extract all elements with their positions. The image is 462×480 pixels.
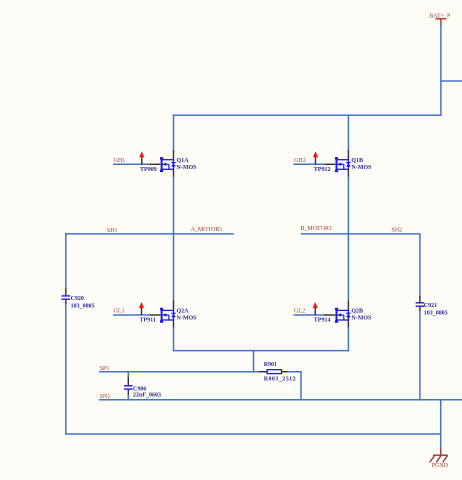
pin Q2A drain stub — [173, 301, 175, 308]
svg-text:R901: R901 — [264, 362, 277, 368]
svg-text:TP911: TP911 — [140, 318, 156, 324]
svg-text:SH2: SH2 — [392, 228, 403, 234]
pin Q1A gate stub — [150, 163, 161, 165]
wire Q1A source to Q2A drain — [173, 177, 175, 300]
wire BAT+ branch to right edge — [441, 80, 462, 82]
transistor Q1A N-MOS — [160, 157, 176, 172]
wire SN1 — [100, 399, 462, 401]
testpoint TP914 — [313, 302, 318, 315]
svg-text:N-MOS: N-MOS — [351, 316, 372, 322]
svg-text:GL1: GL1 — [114, 309, 125, 315]
wire Q1B source to Q2B drain — [347, 177, 349, 300]
svg-text:A_MOTOR1: A_MOTOR1 — [191, 227, 223, 233]
wire BAT+ vertical — [440, 25, 442, 115]
svg-text:C921: C921 — [424, 303, 437, 309]
wire Q2A source down — [173, 328, 175, 351]
wire PGND vertical — [440, 400, 442, 448]
svg-text:GH1: GH1 — [114, 158, 126, 164]
pin Q2B drain stub — [347, 301, 349, 308]
wire top horizontal — [174, 114, 441, 116]
wire Q1B drain — [347, 115, 349, 150]
wire B_MOTOR1 / SH2 — [302, 234, 420, 297]
wire GH2 gate — [294, 163, 324, 165]
svg-text:Q1B: Q1B — [351, 158, 363, 164]
svg-text:SN1: SN1 — [100, 394, 111, 400]
pin Q2B source stub — [347, 321, 349, 328]
wire GH1 gate — [114, 163, 150, 165]
wire GL2 gate — [294, 314, 324, 316]
pin Q2A gate stub — [150, 314, 161, 316]
wire R901 to SN1 — [288, 372, 301, 400]
wire Q2B source down — [347, 328, 349, 351]
svg-text:Q2A: Q2A — [177, 309, 190, 315]
pin Q2B gate stub — [324, 314, 335, 316]
testpoint TP911 — [139, 302, 144, 315]
wire left vertical lower — [65, 305, 67, 434]
wire SH1 / A_MOTOR1 — [66, 233, 233, 235]
wire SP1 — [100, 371, 259, 373]
svg-text:TP914: TP914 — [314, 318, 331, 324]
pin Q1A drain stub — [173, 150, 175, 157]
transistor Q2B N-MOS — [335, 307, 351, 323]
svg-text:GH2: GH2 — [294, 158, 306, 164]
svg-text:PGND: PGND — [432, 463, 449, 469]
capacitor C906 — [124, 372, 133, 400]
wire GL1 gate — [114, 314, 150, 316]
svg-text:B_MOTOR1: B_MOTOR1 — [300, 226, 332, 232]
wire sources joining horizontal — [174, 350, 349, 352]
svg-text:N-MOS: N-MOS — [177, 316, 198, 322]
svg-text:N-MOS: N-MOS — [351, 165, 372, 171]
transistor Q2A N-MOS — [160, 307, 176, 323]
wire left vertical upper — [65, 234, 67, 289]
pin Q1B gate stub — [324, 163, 335, 165]
svg-text:103_0805: 103_0805 — [424, 311, 448, 317]
power flag BAT+_P — [436, 19, 447, 26]
svg-text:R003_2512: R003_2512 — [264, 377, 296, 383]
svg-text:SP1: SP1 — [100, 366, 110, 372]
svg-text:N-MOS: N-MOS — [177, 165, 198, 171]
wire Q1A drain — [173, 115, 175, 150]
pin Q1A source stub — [173, 170, 175, 177]
svg-text:BAT+_P: BAT+_P — [429, 13, 451, 19]
capacitor C920 — [62, 288, 71, 304]
svg-text:GL2: GL2 — [294, 309, 305, 315]
resistor R901 — [259, 370, 289, 374]
svg-text:TP909: TP909 — [140, 167, 157, 173]
svg-text:C920: C920 — [71, 296, 84, 302]
svg-text:TP912: TP912 — [314, 167, 331, 173]
wire bottom horizontal — [66, 433, 441, 435]
testpoint TP909 — [139, 151, 144, 164]
svg-text:Q1A: Q1A — [177, 158, 190, 164]
svg-text:103_0805: 103_0805 — [71, 304, 95, 310]
testpoint TP912 — [313, 151, 318, 164]
wire SH2 vertical lower — [419, 311, 421, 399]
svg-text:22nF_0603: 22nF_0603 — [133, 393, 161, 399]
svg-text:SH1: SH1 — [107, 228, 118, 234]
pin Q1B source stub — [347, 170, 349, 177]
pin Q2A source stub — [173, 321, 175, 328]
capacitor C921 — [416, 296, 425, 311]
pin Q1B drain stub — [347, 150, 349, 157]
ground PGND — [430, 449, 448, 463]
transistor Q1B N-MOS — [335, 157, 351, 172]
wire drop to shunt — [253, 351, 255, 372]
svg-text:Q2B: Q2B — [351, 309, 363, 315]
